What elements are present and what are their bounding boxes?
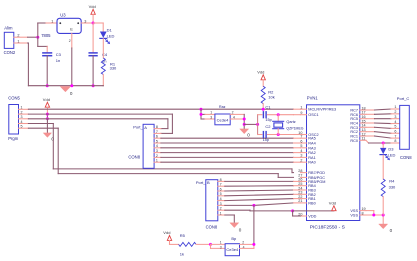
power Vdd (CON5) xyxy=(43,97,50,114)
CON5 pin 1 stub xyxy=(19,106,29,110)
svg-text:C1: C1 xyxy=(265,104,271,109)
wire C1 to OSC1 xyxy=(267,114,300,116)
junction C3-rail xyxy=(46,84,49,87)
wire RC0 to Port_C pin 8 xyxy=(366,140,400,143)
junction button-gnd-2 xyxy=(243,123,246,126)
svg-text:MCLR/VPP/RE3: MCLR/VPP/RE3 xyxy=(308,108,336,112)
Port_A pin 7 stub xyxy=(154,130,161,134)
svg-text:RA4: RA4 xyxy=(308,142,315,146)
Port_B pin 6 stub xyxy=(218,187,225,191)
svg-text:Vdd: Vdd xyxy=(43,97,50,102)
wire gnd to crystal rail xyxy=(244,123,257,125)
svg-text:330: 330 xyxy=(389,184,396,189)
svg-text:CON5: CON5 xyxy=(8,96,20,101)
svg-text:D1: D1 xyxy=(107,27,113,32)
CON5 pin 3 stub xyxy=(19,115,29,119)
CON5 pin 2 stub xyxy=(19,110,29,114)
svg-text:7: 7 xyxy=(220,183,222,187)
svg-text:Port_: Port_ xyxy=(133,125,143,130)
svg-text:Ce3e4: Ce3e4 xyxy=(226,247,239,252)
wire CON5 pin4 to RB7/PGD xyxy=(28,124,293,173)
svg-text:5: 5 xyxy=(21,125,23,129)
PIC pin 10 (OSC2) xyxy=(298,131,318,137)
PIC pin 19 (VSS) xyxy=(350,207,366,213)
wire C3 to rail xyxy=(46,56,48,86)
power Vdd (Bp pullup) xyxy=(163,230,178,244)
wire VSS pins to ground xyxy=(366,211,383,224)
wire RC3 to Port_C pin 5 xyxy=(366,127,400,128)
svg-text:R4: R4 xyxy=(389,179,395,184)
wire C4 to rail xyxy=(92,56,94,86)
connector CON2 (Alim) xyxy=(4,25,20,55)
PIC pin 7 (RA5) xyxy=(300,135,315,141)
svg-text:1: 1 xyxy=(394,105,396,109)
net label Raz xyxy=(219,105,226,109)
svg-text:5: 5 xyxy=(394,125,396,129)
junction R5-Bp xyxy=(209,243,212,246)
PIC pin 8 (VSS) xyxy=(350,211,366,217)
svg-text:5: 5 xyxy=(156,139,158,143)
Port_B pin 5 stub xyxy=(218,192,225,196)
svg-text:Alim: Alim xyxy=(4,25,13,30)
Port_A pin 4 stub xyxy=(154,144,161,148)
svg-text:RB0: RB0 xyxy=(308,201,315,205)
svg-text:Port_: Port_ xyxy=(196,180,206,185)
Port_A pin 1 stub xyxy=(154,159,161,163)
PIC pin 15 (RC4) xyxy=(350,119,366,125)
wire to button Bp pins 1,3 xyxy=(211,244,226,248)
connector Port_C (CON8) xyxy=(397,96,413,160)
svg-text:1n: 1n xyxy=(56,58,60,63)
junction Bp right xyxy=(252,243,255,246)
svg-text:VSS: VSS xyxy=(350,209,358,213)
svg-text:8: 8 xyxy=(156,125,158,129)
Port_C pin 7 number xyxy=(394,134,396,138)
svg-text:Prgm: Prgm xyxy=(8,136,19,141)
wire CON2 pin1 to ground rail xyxy=(27,43,30,86)
CON5 pin 4 stub xyxy=(19,120,29,124)
PIC pin 13 (RC2) xyxy=(350,128,366,134)
capacitor C3 xyxy=(43,52,62,63)
svg-text:4: 4 xyxy=(21,120,23,124)
PIC pin 23 (RB2) xyxy=(298,191,315,197)
PIC pin 14 (RC3) xyxy=(350,124,366,130)
svg-text:9: 9 xyxy=(300,111,302,115)
svg-text:2: 2 xyxy=(242,240,244,244)
wire Port_B pin1 to ground xyxy=(225,215,235,223)
svg-text:CON8: CON8 xyxy=(400,155,412,160)
svg-text:7805: 7805 xyxy=(41,33,51,38)
svg-text:15p: 15p xyxy=(265,118,271,122)
svg-text:CON8: CON8 xyxy=(128,154,140,159)
wire R2 to MCLR xyxy=(262,104,264,110)
svg-text:5: 5 xyxy=(300,144,302,148)
svg-text:RA1: RA1 xyxy=(308,156,315,160)
PIC pin 1 (MCLR/VPP/RE3) xyxy=(300,106,336,112)
power Vdd (MCLR pullup) xyxy=(257,69,265,86)
svg-text:7: 7 xyxy=(300,135,302,139)
wire U3 pin3 to Vdd node xyxy=(81,22,93,24)
svg-text:5: 5 xyxy=(220,192,222,196)
wire RC2 to Port_C pin 6 xyxy=(366,132,400,134)
wire MCLR to button Raz xyxy=(201,109,215,119)
wire RC5 to Port_C pin 3 xyxy=(366,118,400,120)
connector Port_A (CON8) xyxy=(128,124,154,168)
svg-text:4: 4 xyxy=(243,246,245,250)
wire Port_B pin 5 to RB2 xyxy=(225,194,301,196)
wire button Bp to Port_B pin3 net xyxy=(240,205,254,248)
wire Port_B pin 8 to RB5 xyxy=(225,180,301,182)
wire Vdd to CON5 pin2 net xyxy=(46,114,48,119)
junction gnd-pin3 xyxy=(46,117,49,120)
Port_C pin 5 number xyxy=(394,125,396,129)
power Vdd (regulator output) xyxy=(89,4,96,23)
wire MCLR net (CON5 pin1 to PIC pin1) xyxy=(28,108,300,110)
svg-text:14: 14 xyxy=(362,124,366,128)
PIC pin 24 (RB3) xyxy=(298,186,315,192)
wire Port_A pin 3 to RA2 xyxy=(161,152,301,154)
wire CON5 pin5 to RB6/PGC xyxy=(28,128,293,177)
wire RC1 to Port_C pin 7 xyxy=(366,136,400,138)
PIC pin 26 (RB5/PGM) xyxy=(298,178,325,184)
wire crystal ground rail xyxy=(258,115,262,135)
wire Port_B pin 3 to RB0 xyxy=(225,203,301,206)
junction Vdd-pin2 xyxy=(46,113,49,116)
svg-text:LED: LED xyxy=(388,152,396,157)
PIC pin 12 (RC1) xyxy=(350,132,366,138)
wire Port_B pin2 to Vdd net xyxy=(225,209,293,212)
svg-text:Qartz: Qartz xyxy=(286,120,295,124)
PIC pin 11 (RC0) xyxy=(350,137,366,143)
wire Vdd node to LED corner xyxy=(93,22,103,24)
junction RC0-D3 xyxy=(382,142,385,145)
wire CON5 pin2 to PortA pin7 xyxy=(28,114,172,133)
capacitor C1 15p xyxy=(263,104,271,122)
svg-text:2: 2 xyxy=(21,110,23,114)
wire RC4 to Port_C pin 4 xyxy=(366,122,400,125)
svg-text:7: 7 xyxy=(156,130,158,134)
svg-text:C3: C3 xyxy=(56,52,62,57)
wire Port_B pin 4 to RB1 xyxy=(225,199,301,201)
PIC pin 9 (OSC1) xyxy=(300,111,318,117)
svg-text:6: 6 xyxy=(156,135,158,139)
PIC pin 25 (RB4) xyxy=(298,182,315,188)
svg-text:VDD: VDD xyxy=(308,215,316,219)
U3 pin 2 (E) wire to rail xyxy=(69,33,72,85)
wire D3 to R4 xyxy=(382,155,384,179)
Port_B pin 2 stub xyxy=(218,207,225,211)
Port_A pin 8 stub xyxy=(154,125,161,129)
svg-text:Ce3e4: Ce3e4 xyxy=(217,118,230,123)
Port_B pin 1 stub xyxy=(218,211,225,215)
svg-text:3: 3 xyxy=(394,115,396,119)
junction button-gnd-1 xyxy=(243,118,246,121)
svg-text:B: B xyxy=(207,180,210,185)
resistor R4 330 xyxy=(381,179,396,197)
svg-text:RA5: RA5 xyxy=(308,137,315,141)
svg-text:RC0: RC0 xyxy=(350,139,358,143)
svg-text:3: 3 xyxy=(220,202,222,206)
wire Port_A pin 1 to RA0 xyxy=(161,161,301,163)
push button Bp xyxy=(220,236,245,256)
svg-text:15p: 15p xyxy=(263,138,269,142)
Port_A pin 3 stub xyxy=(154,149,161,153)
wire R1 to rail xyxy=(102,75,104,86)
svg-text:Vdd: Vdd xyxy=(257,69,264,74)
wire C2 to OSC2 xyxy=(267,134,300,136)
wire Port_B pin 6 to RB3 xyxy=(225,190,301,191)
svg-text:1: 1 xyxy=(156,159,158,163)
svg-text:6: 6 xyxy=(220,187,222,191)
svg-text:3: 3 xyxy=(156,149,158,153)
capacitor C4 xyxy=(89,23,108,63)
junction R2-MCLR xyxy=(262,108,265,111)
svg-text:2: 2 xyxy=(394,110,396,114)
regulator U3 7805 xyxy=(41,13,81,38)
junction Port_B pin3 - button Bp xyxy=(252,204,255,207)
svg-text:8: 8 xyxy=(362,211,364,215)
svg-text:1: 1 xyxy=(51,20,53,24)
svg-text:4: 4 xyxy=(394,120,396,124)
svg-text:VSS: VSS xyxy=(350,214,358,218)
svg-text:1: 1 xyxy=(220,211,222,215)
svg-text:11: 11 xyxy=(362,137,366,141)
connector Port_B (CON8) xyxy=(196,180,218,230)
power Vdd (PIC VDD) xyxy=(329,201,336,211)
Port_B pin 8 stub xyxy=(218,178,225,182)
svg-text:10k: 10k xyxy=(268,94,274,99)
CON5 pin 5 stub xyxy=(19,125,29,129)
junction U3-rail xyxy=(70,84,73,87)
svg-text:LED: LED xyxy=(107,33,115,38)
Port_A pin 2 stub xyxy=(154,154,161,158)
svg-text:Bp: Bp xyxy=(231,236,237,241)
wire CON2 pin2 to node xyxy=(28,36,38,38)
PIC pin 28 (RB7/PGD) xyxy=(298,169,325,175)
Port_B pin 3 stub xyxy=(218,202,225,206)
svg-text:2: 2 xyxy=(69,39,71,43)
svg-text:2: 2 xyxy=(220,207,222,211)
svg-text:0: 0 xyxy=(390,228,393,233)
wire CON5 pin3 to PortA pin8 xyxy=(28,119,168,129)
wire RC6 to Port_C pin 2 xyxy=(366,113,400,115)
svg-text:0: 0 xyxy=(70,91,73,96)
svg-text:RB7/PGD: RB7/PGD xyxy=(308,171,325,175)
junction VSS xyxy=(372,214,375,217)
crystal Qartz QZP1MEG xyxy=(273,115,304,135)
svg-text:Vdd: Vdd xyxy=(329,201,336,206)
svg-text:PVN1: PVN1 xyxy=(307,95,319,100)
junction button row xyxy=(200,113,203,116)
svg-text:2: 2 xyxy=(300,159,302,163)
PIC pin 5 (RA3) xyxy=(300,144,315,150)
svg-text:1: 1 xyxy=(21,106,23,110)
svg-text:D3: D3 xyxy=(388,146,394,151)
PIC pin 20 (VDD) xyxy=(298,212,316,218)
wire D1 to R1 xyxy=(102,39,104,58)
Port_A pin 6 stub xyxy=(154,135,161,139)
svg-text:8: 8 xyxy=(220,178,222,182)
LED D1 xyxy=(100,23,115,44)
svg-text:Vdd: Vdd xyxy=(89,4,96,9)
CON2 pin 1 stub xyxy=(14,42,28,44)
svg-text:4: 4 xyxy=(156,144,158,148)
svg-text:7: 7 xyxy=(394,134,396,138)
svg-text:RA0: RA0 xyxy=(308,161,315,165)
PIC pin 27 (RB6/PGC) xyxy=(298,174,325,180)
PIC pin 17 (RC6) xyxy=(350,111,366,117)
svg-text:4: 4 xyxy=(220,197,222,201)
svg-text:1: 1 xyxy=(300,106,302,110)
wire Port_B pin 7 to RB4 xyxy=(225,185,301,188)
ground rail xyxy=(28,85,103,87)
svg-text:C2: C2 xyxy=(265,124,271,129)
wire R5 to button Bp xyxy=(196,243,211,245)
svg-text:0: 0 xyxy=(239,228,242,233)
resistor R5 1k xyxy=(179,233,196,257)
PIC pin 21 (RB0) xyxy=(298,199,315,205)
PIC pin 6 (RA4) xyxy=(300,139,315,145)
wire node down to C3 xyxy=(38,37,47,52)
U3 pin 3 number xyxy=(84,20,86,24)
svg-text:Port_C: Port_C xyxy=(397,96,410,101)
svg-text:1k: 1k xyxy=(180,252,184,257)
svg-text:3: 3 xyxy=(21,115,23,119)
wire R4 to VSS net xyxy=(382,197,384,215)
svg-text:RA3: RA3 xyxy=(308,146,315,150)
Port_C pin 8 number xyxy=(394,139,396,143)
PIC pin 2 (RA0) xyxy=(300,159,315,165)
Port_C pin 3 number xyxy=(394,115,396,119)
junction crystal-OSC2 xyxy=(277,133,280,136)
junction VDD pin xyxy=(291,209,294,212)
LED D3 xyxy=(380,143,395,160)
junction crystal rail xyxy=(256,123,259,126)
svg-text:8: 8 xyxy=(394,139,396,143)
PIC pin 18 (RC7) xyxy=(350,106,366,112)
svg-text:3: 3 xyxy=(210,115,212,119)
svg-text:28: 28 xyxy=(298,169,302,173)
junction C4-rail xyxy=(92,84,95,87)
svg-text:U3: U3 xyxy=(60,13,66,18)
svg-text:6: 6 xyxy=(394,129,396,133)
ground 0 (VSS) xyxy=(379,224,393,233)
PIC pin 3 (RA1) xyxy=(300,154,315,160)
Port_B pin 4 stub xyxy=(218,197,225,201)
svg-text:Raz: Raz xyxy=(219,105,226,109)
svg-text:1: 1 xyxy=(220,240,222,244)
svg-text:R5: R5 xyxy=(180,233,186,238)
svg-text:RA2: RA2 xyxy=(308,151,315,155)
svg-text:1: 1 xyxy=(210,111,212,115)
wire Port_A pin 4 to RA3 xyxy=(161,147,301,149)
ground 0 (rail) xyxy=(60,87,73,97)
svg-text:330: 330 xyxy=(110,66,117,71)
Port_B pin 7 stub xyxy=(218,183,225,187)
wire Port_A pin 5 to RA4 xyxy=(161,142,301,144)
wire node up to U3 pin1 xyxy=(38,23,57,37)
wire VDD pin 20 xyxy=(293,211,334,216)
capacitor C2 15p xyxy=(263,124,272,142)
svg-text:2: 2 xyxy=(156,154,158,158)
Port_C pin 2 number xyxy=(394,110,396,114)
junction crystal-OSC1 xyxy=(277,113,280,116)
Port_C pin 4 number xyxy=(394,120,396,124)
svg-text:6: 6 xyxy=(300,139,302,143)
svg-text:17: 17 xyxy=(362,111,366,115)
wire Port_A pin 2 to RA1 xyxy=(161,156,301,158)
svg-text:Vdd: Vdd xyxy=(163,230,170,235)
resistor R2 10k xyxy=(261,86,275,103)
microcontroller PVN1 PIC18F2550 xyxy=(307,95,360,230)
ground 0 (Port_B) xyxy=(230,223,242,233)
svg-text:3: 3 xyxy=(300,154,302,158)
svg-text:PIC18F2550 - S: PIC18F2550 - S xyxy=(310,225,346,231)
Port_C pin 1 number xyxy=(394,105,396,109)
svg-text:OSC1: OSC1 xyxy=(308,113,318,117)
wire RC7 to Port_C pin 1 xyxy=(366,109,400,110)
svg-text:4: 4 xyxy=(300,149,302,153)
PIC pin 4 (RA2) xyxy=(300,149,315,155)
svg-text:RC3: RC3 xyxy=(350,126,358,130)
ground 0 (CON5) xyxy=(43,119,54,142)
junction VSS-R4 xyxy=(382,214,385,217)
Port_C pin 6 number xyxy=(394,129,396,133)
Port_A pin 5 stub xyxy=(154,139,161,143)
PIC pin 16 (RC5) xyxy=(350,115,366,121)
push button Raz (reset) xyxy=(210,111,235,125)
svg-text:RC6: RC6 xyxy=(350,113,358,117)
ground 0 (reset button) xyxy=(240,129,251,138)
svg-text:A: A xyxy=(144,125,147,130)
resistor R1 330 xyxy=(101,58,117,75)
wire button Raz to ground xyxy=(230,114,244,128)
junction Vdd node xyxy=(92,22,95,25)
svg-text:19: 19 xyxy=(362,207,366,211)
svg-text:CON2: CON2 xyxy=(4,50,16,55)
svg-text:0: 0 xyxy=(247,133,250,138)
wire Port_A pin 6 to RA5 xyxy=(161,137,301,139)
CON2 pin 2 stub xyxy=(14,36,28,38)
svg-text:3: 3 xyxy=(220,246,222,250)
U3 pin 1 number xyxy=(51,20,53,24)
connector CON5 (Prgm) xyxy=(8,96,20,142)
junction MCLR-button xyxy=(200,108,203,111)
node Vin junction xyxy=(36,36,39,39)
svg-text:CON8: CON8 xyxy=(206,225,218,230)
PIC pin 22 (RB1) xyxy=(298,195,315,201)
svg-text:E: E xyxy=(70,27,73,32)
